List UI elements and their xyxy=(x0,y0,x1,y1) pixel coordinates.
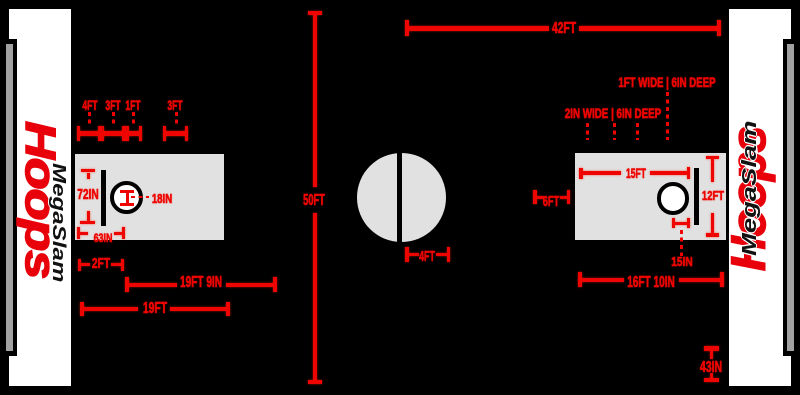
19FT dim xyxy=(80,302,84,316)
50FT vertical dimension xyxy=(308,11,322,15)
left key (gray) xyxy=(75,154,223,240)
left sideline panel (white) xyxy=(9,9,71,386)
18IN label xyxy=(102,192,220,206)
left small dims: 4FT 3FT 1FT chain xyxy=(78,131,140,135)
dashed leaders xyxy=(88,112,91,126)
42FT top dimension xyxy=(405,20,409,36)
12FT vertical dim xyxy=(706,156,719,160)
right backboard xyxy=(694,168,699,224)
right labels: 1FT WIDE | 6IN DEEP xyxy=(612,75,722,89)
right labels: 2IN WIDE | 6IN DEEP xyxy=(557,106,669,120)
half-court line xyxy=(397,152,402,243)
4FT dimension below center circle xyxy=(405,247,409,262)
6FT dim xyxy=(533,190,536,204)
left small dim: 3FT xyxy=(164,131,187,135)
left panel notch (black) xyxy=(0,39,17,356)
right logo MegaSlam Hoops (rotated -90deg) xyxy=(730,117,782,277)
15FT dim xyxy=(579,168,583,180)
center circle xyxy=(357,153,446,242)
15IN marker xyxy=(672,218,675,228)
right panel gray bar xyxy=(787,44,794,351)
2FT dim xyxy=(78,259,81,271)
left panel gray bar xyxy=(6,44,13,351)
left backboard xyxy=(101,170,105,225)
72IN vertical dim xyxy=(81,169,94,172)
19FT 9IN dim xyxy=(125,277,129,292)
left logo MegaSlam Hoops (rotated 90deg) xyxy=(15,121,67,281)
43IN vertical dim xyxy=(704,346,720,350)
right sideline panel (white) xyxy=(729,9,791,386)
left rim xyxy=(110,181,143,214)
16FT 10IN dim xyxy=(578,272,582,287)
dashed leader to 18IN xyxy=(131,196,149,199)
labels xyxy=(41,98,139,112)
right panel notch (black) xyxy=(783,39,800,356)
63IN dim xyxy=(77,227,80,239)
right rim xyxy=(657,182,690,215)
right key (gray) xyxy=(575,153,726,240)
I-beam 18in marker xyxy=(120,190,134,193)
